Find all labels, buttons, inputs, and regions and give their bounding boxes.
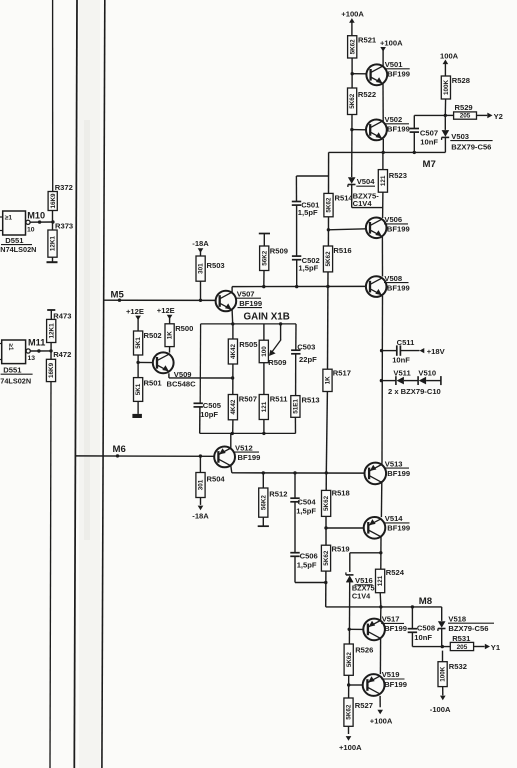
svg-text:V510: V510: [418, 368, 436, 377]
svg-text:56K2: 56K2: [261, 250, 268, 266]
svg-text:R522: R522: [358, 90, 376, 99]
svg-text:+100A: +100A: [380, 39, 403, 48]
svg-text:M7: M7: [423, 159, 436, 170]
svg-text:R507: R507: [239, 394, 257, 403]
svg-text:≥1: ≥1: [5, 214, 13, 221]
svg-text:R505: R505: [239, 340, 258, 349]
svg-text:5K62: 5K62: [346, 704, 353, 720]
svg-text:1,5pF: 1,5pF: [298, 264, 318, 273]
svg-text:+100A: +100A: [339, 743, 362, 752]
svg-text:BF199: BF199: [387, 283, 410, 292]
svg-text:5K62: 5K62: [323, 550, 330, 566]
svg-text:BF199: BF199: [238, 453, 261, 462]
svg-text:M8: M8: [419, 596, 433, 607]
svg-text:R516: R516: [333, 246, 351, 255]
svg-text:74LS02N: 74LS02N: [0, 376, 31, 385]
svg-text:R524: R524: [386, 568, 405, 577]
svg-text:10nF: 10nF: [414, 633, 432, 642]
svg-text:4K42: 4K42: [230, 343, 237, 359]
svg-text:C508: C508: [417, 624, 435, 633]
svg-text:R472: R472: [53, 350, 71, 359]
svg-text:BZX79-C56: BZX79-C56: [448, 624, 488, 633]
svg-text:V514: V514: [385, 514, 404, 523]
svg-text:R518: R518: [332, 489, 350, 498]
svg-text:R504: R504: [207, 474, 226, 483]
svg-text:D551: D551: [3, 366, 22, 375]
svg-text:GAIN X1B: GAIN X1B: [244, 311, 290, 322]
svg-text:+18V: +18V: [427, 347, 446, 356]
svg-text:+100A: +100A: [370, 716, 393, 725]
svg-text:BF199: BF199: [239, 299, 262, 308]
svg-text:≥1: ≥1: [7, 344, 14, 351]
svg-text:BF199: BF199: [387, 469, 410, 478]
svg-text:1K: 1K: [325, 376, 332, 385]
svg-text:22pF: 22pF: [299, 355, 317, 364]
svg-text:R514: R514: [335, 193, 354, 202]
svg-text:R517: R517: [333, 368, 351, 377]
svg-text:R513: R513: [302, 395, 320, 404]
svg-text:R373: R373: [55, 222, 73, 231]
svg-text:56K2: 56K2: [260, 495, 267, 511]
svg-text:V507: V507: [237, 289, 255, 298]
svg-text:V512: V512: [235, 443, 253, 452]
svg-text:V518: V518: [448, 614, 466, 623]
svg-text:121: 121: [380, 175, 387, 186]
svg-text:N74LS02N: N74LS02N: [0, 245, 36, 254]
svg-text:4K42: 4K42: [230, 399, 237, 415]
svg-text:BF199: BF199: [387, 225, 410, 234]
svg-text:C1V4: C1V4: [353, 199, 373, 208]
svg-text:10pF: 10pF: [200, 410, 218, 419]
svg-text:R527: R527: [355, 701, 373, 710]
svg-text:205: 205: [460, 113, 471, 120]
svg-text:D551: D551: [5, 236, 24, 245]
svg-text:M11: M11: [28, 337, 45, 347]
svg-text:R372: R372: [55, 183, 73, 192]
svg-text:C505: C505: [203, 401, 222, 410]
svg-text:1,5pF: 1,5pF: [297, 560, 317, 569]
svg-text:12K1: 12K1: [48, 323, 55, 339]
svg-text:M6: M6: [113, 444, 126, 455]
svg-text:R521: R521: [358, 36, 377, 45]
svg-text:BF199: BF199: [384, 680, 407, 689]
svg-text:121: 121: [261, 401, 268, 412]
svg-text:BC548C: BC548C: [167, 379, 197, 388]
svg-text:Y2: Y2: [494, 112, 503, 121]
svg-text:5K62: 5K62: [323, 495, 330, 511]
svg-text:301: 301: [198, 479, 205, 490]
svg-text:C511: C511: [397, 338, 416, 347]
svg-text:R501: R501: [144, 378, 163, 387]
svg-text:R500: R500: [175, 324, 193, 333]
svg-text:C1V4: C1V4: [352, 591, 371, 600]
svg-text:51E1: 51E1: [293, 399, 300, 414]
svg-text:R511: R511: [270, 394, 289, 403]
svg-text:100K: 100K: [443, 80, 450, 96]
svg-text:BF199: BF199: [387, 125, 410, 134]
svg-text:R523: R523: [389, 171, 407, 180]
svg-text:10nF: 10nF: [392, 355, 410, 364]
svg-text:5K62: 5K62: [346, 652, 353, 668]
svg-text:5K1: 5K1: [135, 383, 142, 395]
svg-text:M10: M10: [27, 210, 45, 220]
svg-text:V513: V513: [385, 459, 403, 468]
svg-text:R526: R526: [355, 645, 373, 654]
svg-text:R529: R529: [455, 103, 473, 112]
svg-text:100K: 100K: [440, 666, 447, 682]
svg-text:+12E: +12E: [157, 306, 175, 315]
svg-text:10: 10: [27, 227, 35, 234]
svg-text:R519: R519: [332, 545, 350, 554]
svg-text:R503: R503: [207, 261, 225, 270]
svg-text:C507: C507: [420, 128, 438, 137]
svg-text:C506: C506: [300, 552, 318, 561]
svg-text:R512: R512: [269, 489, 287, 498]
svg-text:13: 13: [28, 355, 36, 362]
svg-text:5K62: 5K62: [349, 93, 356, 109]
svg-text:Y1: Y1: [491, 643, 501, 652]
svg-text:V501: V501: [385, 60, 404, 69]
svg-text:R509: R509: [268, 358, 286, 367]
svg-text:R528: R528: [452, 76, 470, 85]
svg-text:V506: V506: [384, 215, 402, 224]
svg-text:+12E: +12E: [126, 307, 144, 316]
svg-text:1,5pF: 1,5pF: [298, 208, 318, 217]
svg-text:BF199: BF199: [387, 524, 410, 533]
svg-text:301: 301: [198, 263, 205, 274]
svg-text:205: 205: [457, 644, 468, 651]
svg-text:2 x BZX79-C10: 2 x BZX79-C10: [388, 387, 441, 396]
svg-text:V503: V503: [451, 132, 469, 141]
svg-text:1K: 1K: [167, 331, 174, 340]
svg-text:C503: C503: [297, 342, 315, 351]
svg-text:5K62: 5K62: [349, 39, 356, 55]
svg-text:R509: R509: [270, 246, 288, 255]
svg-text:16K9: 16K9: [50, 193, 57, 209]
svg-text:100: 100: [261, 346, 268, 357]
svg-text:R473: R473: [53, 312, 71, 321]
svg-text:V502: V502: [385, 115, 403, 124]
svg-text:-18A: -18A: [192, 511, 209, 520]
svg-text:-100A: -100A: [430, 705, 451, 714]
svg-text:5K62: 5K62: [325, 251, 332, 267]
svg-text:M5: M5: [111, 290, 125, 301]
svg-text:BF199: BF199: [387, 70, 410, 79]
svg-text:V509: V509: [174, 370, 192, 379]
svg-text:BF199: BF199: [384, 624, 407, 633]
svg-text:5K62: 5K62: [326, 197, 333, 213]
svg-text:BZX79-C56: BZX79-C56: [451, 142, 491, 151]
svg-text:12K1: 12K1: [50, 236, 57, 252]
svg-text:5K1: 5K1: [135, 337, 142, 349]
svg-text:121: 121: [377, 575, 384, 586]
svg-text:V504: V504: [357, 177, 376, 186]
svg-text:C504: C504: [297, 498, 316, 507]
svg-text:100A: 100A: [440, 52, 459, 61]
svg-text:V517: V517: [382, 615, 400, 624]
svg-text:V519: V519: [382, 670, 400, 679]
svg-text:V511: V511: [393, 368, 411, 377]
svg-text:10nF: 10nF: [420, 138, 438, 147]
svg-text:16K9: 16K9: [48, 362, 55, 378]
svg-text:V508: V508: [384, 274, 402, 283]
svg-text:-18A: -18A: [192, 239, 209, 248]
svg-text:R532: R532: [449, 662, 467, 671]
svg-text:R502: R502: [144, 331, 162, 340]
svg-text:+100A: +100A: [341, 10, 364, 19]
svg-text:1,5pF: 1,5pF: [296, 507, 316, 516]
